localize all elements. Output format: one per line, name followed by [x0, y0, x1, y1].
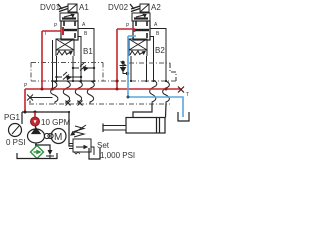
svg-text:B1: B1 — [83, 47, 93, 56]
wire A1-line from DV01 A port — [78, 29, 94, 82]
wire relief to tank — [91, 147, 94, 155]
blue return rail — [128, 97, 183, 117]
cylinder A1/A2 body — [126, 118, 165, 134]
pump P1 — [28, 126, 45, 145]
red terminal bar DV01 — [62, 27, 64, 35]
wire B2 block legs — [130, 56, 132, 81]
wire B2-line from DV02 B port — [150, 37, 154, 81]
manifold dash-dot staircase right — [170, 63, 176, 81]
wire pump suction / drain tee — [36, 145, 50, 150]
plugged port P (left, X symbol) — [27, 95, 33, 104]
svg-text:10 GPM: 10 GPM — [41, 118, 71, 127]
piston rod — [103, 126, 126, 131]
manifold dash-dot bottom edge — [31, 80, 176, 82]
plugged port X on bottom boundary 1 — [66, 101, 71, 106]
hose H1 — [51, 81, 58, 104]
electric motor M1 — [51, 129, 66, 144]
red pressure feed DV01 — [42, 30, 61, 32]
red riser left — [41, 31, 43, 89]
solenoid actuator DV01 — [58, 4, 77, 12]
wire A2-line from DV02 A port — [150, 29, 166, 82]
junction dots pressure header — [24, 111, 37, 114]
pilot position box DV01 — [60, 13, 78, 21]
junction dots link upper — [72, 67, 95, 69]
wire relief valve drop — [69, 112, 73, 146]
check valve to tank — [46, 150, 54, 159]
filter F1 (green diamond) — [31, 146, 44, 159]
svg-text:A2: A2 — [151, 3, 161, 12]
svg-text:PG1: PG1 — [4, 113, 21, 122]
red supply rail — [25, 88, 180, 90]
junction dots rail right — [130, 80, 167, 82]
flow meter (red indicator) — [31, 117, 40, 126]
wire return line left stub — [30, 97, 53, 99]
hose H2 — [63, 81, 70, 104]
junction dots link lower — [55, 76, 82, 78]
piston — [157, 118, 160, 134]
hose H6 (A2 line to cylinder) — [163, 81, 170, 104]
wire pump to filter — [35, 144, 37, 147]
hose H3 — [75, 81, 82, 104]
wire pressure header (pump discharge) — [22, 111, 68, 113]
reservoir line — [17, 153, 57, 159]
shaft coupling — [44, 133, 53, 138]
relief valve RV1 — [71, 125, 91, 152]
station rail solid (left) — [53, 80, 95, 82]
check link upper (A side) — [73, 63, 94, 71]
red stub to flow meter — [34, 112, 36, 117]
valve body DV01 — [61, 21, 78, 40]
red riser DV02 — [116, 29, 118, 89]
port stubs DV02 — [136, 22, 147, 39]
svg-text:B2: B2 — [155, 46, 165, 55]
svg-text:T: T — [186, 92, 189, 98]
wire P column DV01 station — [52, 40, 54, 89]
spring strip B1 — [56, 50, 74, 56]
wire B1-line from DV01 B port — [78, 37, 81, 82]
blue riser DV02 T — [127, 36, 129, 97]
svg-text:Set: Set — [97, 141, 110, 150]
relief valve left tab — [69, 144, 73, 149]
svg-text:1,000 PSI: 1,000 PSI — [100, 151, 135, 160]
wire cylinder rod-side port (Z path) — [133, 104, 152, 118]
tank symbol right — [178, 112, 189, 121]
plugged port X on bottom boundary 2 — [78, 101, 83, 106]
junction dots rail left — [51, 80, 95, 82]
manifold dash-dot left edge — [30, 63, 32, 82]
manifold dash-dot top right block — [129, 62, 170, 64]
solenoid actuator DV02 — [130, 4, 149, 12]
red drop to pump line — [24, 89, 26, 112]
pilot position box DV02 — [132, 13, 150, 21]
manifold dash-dot right edge block1 — [102, 63, 104, 82]
hose H5 (B2 to cylinder rod side) — [150, 80, 157, 104]
wire cylinder cap-side drop — [165, 104, 168, 118]
pressure gauge PG1 — [9, 124, 22, 137]
rod end cap — [102, 124, 104, 133]
svg-text:0 PSI: 0 PSI — [6, 138, 26, 147]
red feed DV02 — [117, 29, 135, 32]
spring strip B2 — [129, 50, 147, 56]
hose H4 — [87, 81, 94, 104]
red junction dots — [41, 80, 168, 91]
wire B1 block legs — [56, 56, 58, 81]
sandwich block B2 (X box) — [129, 39, 147, 50]
sandwich block B1 (X box) — [56, 39, 74, 50]
relief valve drain squiggle — [74, 152, 80, 154]
svg-text:A1: A1 — [79, 3, 89, 12]
manifold dash-dot top left block — [31, 62, 103, 64]
check link lower (B side) — [57, 72, 82, 80]
svg-text:DV01: DV01 — [40, 3, 61, 12]
blue tank line DV02 T — [128, 35, 136, 37]
plugged port T (right end of red rail) — [178, 87, 184, 93]
svg-text:T: T — [44, 31, 47, 37]
blue junction dot — [127, 96, 130, 99]
svg-text:DV02: DV02 — [108, 3, 129, 12]
svg-text:M: M — [54, 132, 62, 143]
valve body DV02 — [133, 21, 150, 40]
port stubs DV01 — [64, 22, 75, 39]
tank symbol relief — [89, 148, 100, 159]
check valve cluster (between stations) — [120, 61, 129, 74]
wire gauge drop — [21, 112, 23, 124]
bench boundary dash-dot bottom — [29, 103, 170, 105]
